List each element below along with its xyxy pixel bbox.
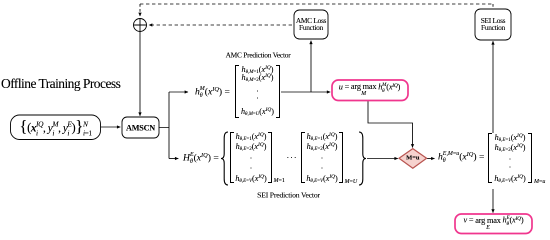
subscript M=u — [534, 179, 545, 185]
wire dashed AMC loss to summing node — [149, 24, 292, 26]
decision diamond M=u — [399, 149, 427, 169]
dots between columns — [287, 154, 298, 163]
label AMC Prediction Vector — [226, 50, 291, 59]
dataset box — [11, 115, 101, 140]
wire to SEI prediction vector — [169, 158, 178, 160]
wire dashed into summing node — [139, 4, 141, 16]
node dataset math — [19, 117, 91, 138]
summing node circle — [134, 19, 147, 32]
SEI loss box — [475, 9, 511, 40]
label SEI Prediction Vector — [257, 190, 320, 199]
vector selected SEI — [488, 133, 532, 183]
formula SEI lhs — [183, 152, 219, 166]
node AMC loss label — [296, 17, 326, 33]
wire branch up to AMC loss — [310, 41, 312, 92]
brace right of SEI matrix — [357, 131, 367, 186]
formula AMC lhs — [195, 86, 230, 100]
wire dashed feedback top — [140, 3, 493, 5]
wire AMSCN output split — [159, 92, 169, 159]
wire SEI matrix to diamond — [367, 158, 398, 160]
subscript M=1 — [274, 178, 285, 184]
formula selected vector lhs — [438, 151, 484, 165]
vector SEI column M=U — [301, 132, 343, 183]
vector SEI column M=1 — [230, 132, 272, 183]
AMC loss box — [294, 10, 328, 39]
wire to AMC prediction vector — [169, 91, 188, 93]
wire dashed into SEI loss top — [492, 4, 494, 9]
argmax u box (pink) — [332, 80, 408, 101]
wire AMC vector to argmax box — [281, 91, 330, 93]
diamond label M=u — [406, 155, 419, 162]
formula argmax v — [464, 215, 524, 231]
node SEI loss label — [481, 17, 506, 33]
wire selected vector to argmax v — [492, 189, 494, 213]
argmax v box (pink) — [455, 214, 532, 234]
wire diamond to selected vector — [427, 158, 435, 160]
brace left of SEI matrix — [220, 131, 230, 186]
AMSCN box — [122, 117, 159, 138]
formula argmax u — [339, 81, 401, 97]
wire SEI vector up to SEI loss — [492, 41, 494, 133]
node AMSCN label — [126, 123, 155, 132]
wire dataset to AMSCN — [101, 126, 120, 128]
wire summing node to AMSCN — [139, 32, 141, 116]
wire argmax u to decision diamond — [368, 101, 413, 148]
subscript M=U — [345, 179, 358, 185]
label Offline Training Process — [1, 76, 120, 92]
vector AMC prediction — [235, 65, 280, 118]
